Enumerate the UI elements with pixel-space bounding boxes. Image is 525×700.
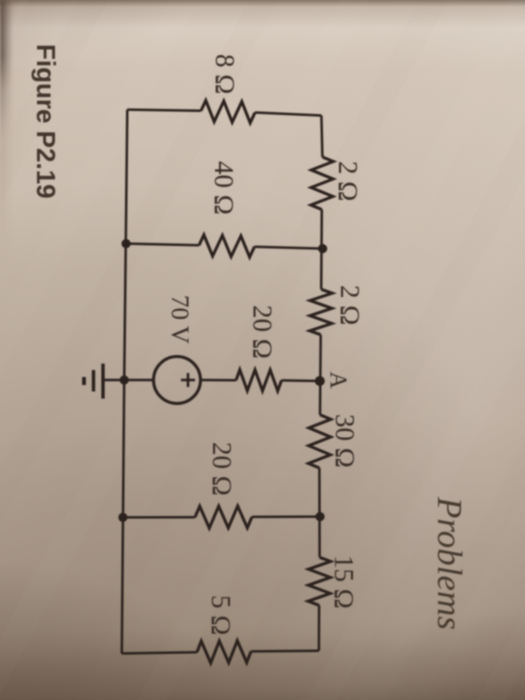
label Figure P2.19 <box>0 44 61 70</box>
ground symbol <box>84 364 103 399</box>
resistor 20 ohm (middle rung) <box>236 370 282 391</box>
resistor 30 ohm <box>309 415 331 468</box>
wire right rail top segment (top corner to 2-ohm R1) <box>321 116 322 158</box>
wire third rung: source to 20-ohm <box>201 379 237 382</box>
wire right rail segment (2-ohm R1 to node B dot) <box>320 210 323 290</box>
svg-text:2 Ω: 2 Ω <box>333 161 363 201</box>
svg-text:15 Ω: 15 Ω <box>329 555 359 609</box>
wire top rung right of 8-ohm <box>255 113 321 116</box>
resistor 20 ohm (fourth rung) <box>195 506 252 528</box>
wire right rail segment (30-ohm to 15-ohm) <box>318 468 321 557</box>
svg-text:20 Ω: 20 Ω <box>207 442 237 496</box>
voltage source plus sign <box>181 373 195 387</box>
node dot second rung right <box>318 244 327 253</box>
wire fourth rung left of 20-ohm <box>123 516 195 519</box>
svg-text:70 V: 70 V <box>166 295 193 344</box>
svg-text:5 Ω: 5 Ω <box>206 595 236 635</box>
voltage source 70 V circle <box>154 357 201 404</box>
wire bottom rung right of 5-ohm <box>251 650 319 653</box>
wire second rung left of 40-ohm <box>126 244 199 246</box>
resistor 2 ohm (second, right rail) <box>310 289 333 334</box>
wire bottom rung left of 5-ohm <box>122 652 197 653</box>
wire fourth rung right of 20-ohm <box>252 515 320 518</box>
svg-text:20 Ω: 20 Ω <box>248 305 278 359</box>
label Problems (page header) <box>429 497 469 630</box>
wire top rung left of 8-ohm <box>127 110 201 111</box>
wire right rail bottom segment (15-ohm to bottom corner) <box>318 605 321 651</box>
wire right rail segment (2-ohm R2 to 30-ohm) <box>319 335 322 415</box>
wire left rail <box>122 110 128 654</box>
wire ground to left rail node <box>103 379 124 382</box>
svg-text:30 Ω: 30 Ω <box>330 414 360 468</box>
wire third rung: rail node to source <box>124 379 152 382</box>
svg-text:2 Ω: 2 Ω <box>335 285 365 325</box>
wire second rung right of 40-ohm <box>255 247 323 249</box>
node dot third rung left (ground node) <box>120 375 129 384</box>
resistor 40 ohm <box>199 235 255 257</box>
resistor 8 ohm <box>201 100 255 123</box>
node dot fourth rung left <box>118 513 127 522</box>
resistor 5 ohm <box>197 641 251 663</box>
node dot fourth rung right <box>315 512 324 521</box>
wire third rung: 20-ohm to node A <box>282 379 320 382</box>
svg-text:A: A <box>325 372 351 390</box>
node A dot <box>315 376 325 386</box>
resistor 2 ohm (top right) <box>311 157 333 210</box>
svg-text:8 Ω: 8 Ω <box>210 54 240 94</box>
node dot second rung left <box>122 239 131 248</box>
svg-text:40 Ω: 40 Ω <box>209 161 239 215</box>
resistor 15 ohm <box>308 557 331 605</box>
